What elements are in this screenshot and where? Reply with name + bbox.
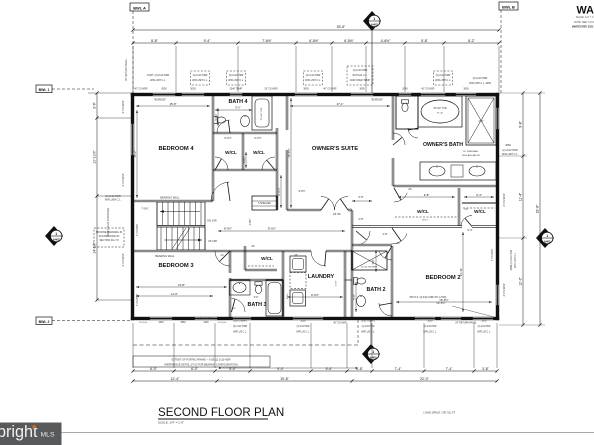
svg-text:W/CL: W/CL [417,209,429,214]
BWL B label box [499,2,518,10]
svg-text:(2) 2x10 HDR: (2) 2x10 HDR [353,69,368,72]
svg-text:(2) 2x10 HDR: (2) 2x10 HDR [473,77,488,80]
svg-text:W/CL: W/CL [261,256,273,261]
watermark bar [0,423,62,445]
bottom dim extension lines [132,323,134,368]
header note 3 [226,71,245,85]
svg-text:8'-8": 8'-8" [151,39,159,43]
svg-text:W/CL: W/CL [253,150,265,155]
svg-text:3'-8": 3'-8" [356,367,364,371]
svg-text:W/FLUSH C.L.: W/FLUSH C.L. [192,79,208,82]
wall wicl2 partition [462,202,496,204]
svg-text:BEARING WALL: BEARING WALL [160,196,180,200]
svg-text:W/FLUS C.L.: W/FLUS C.L. [361,332,375,334]
bath4 sink [241,116,250,127]
header note 2 [190,71,209,85]
window top bath4 [229,93,243,96]
wall between wicls [457,188,459,226]
svg-text:W/FLUSH C.L.: W/FLUSH C.L. [435,79,451,82]
svg-text:*EGRESS*: *EGRESS* [371,99,383,102]
window bottom bedroom2 c [472,317,494,320]
laundry sink base [290,290,306,306]
bath3 toilet [255,282,262,294]
svg-text:W/FLUSH C.L. 3056: W/FLUSH C.L. 3056 [469,82,491,85]
svg-text:3050 (TEMP): 3050 (TEMP) [361,321,375,323]
svg-text:7'-6½": 7'-6½" [262,39,272,43]
svg-text:W/CL: W/CL [474,209,486,214]
svg-text:2040 TEMP.: 2040 TEMP. [230,88,243,91]
svg-text:9'-4": 9'-4" [204,39,212,43]
top dimension extension lines [132,46,134,92]
dim bedroom2 w [396,301,492,303]
wicl d shelf [395,216,457,218]
owners bath tub [418,96,462,127]
svg-text:2'-8": 2'-8" [383,233,388,236]
portal frame dashed extent [133,344,358,346]
linen closet [252,196,277,210]
dim bedroom4 height [136,110,138,198]
svg-text:SCALE: 1/4" = 1'-0": SCALE: 1/4" = 1'-0" [576,16,594,19]
svg-text:4' CS-WSP: 4' CS-WSP [491,249,494,261]
right dimension column inner [522,93,524,325]
svg-text:W/FLUS C.L.: W/FLUS C.L. [233,332,247,334]
micro dim a [217,108,219,126]
svg-text:3050: 3050 [303,88,309,91]
svg-text:7'-1": 7'-1" [437,111,443,115]
window top owners suite b [350,93,374,96]
svg-text:ACCORDANCE W/: ACCORDANCE W/ [99,235,120,238]
svg-text:BEDROOM 2: BEDROOM 2 [425,275,460,281]
svg-text:DN 16R: DN 16R [207,219,216,223]
svg-text:BATH 2: BATH 2 [366,287,385,293]
closet b door [262,157,275,170]
svg-text:7'-0½": 7'-0½" [141,207,148,211]
bath2 shower [352,251,387,270]
staircase [157,202,205,250]
svg-text:9'-0½": 9'-0½" [224,136,231,140]
bath3 door [232,299,246,313]
svg-text:1: 1 [372,350,374,354]
svg-text:17'-1": 17'-1" [336,102,343,106]
svg-text:9'-0½": 9'-0½" [311,293,319,297]
svg-text:5'-4": 5'-4" [476,193,482,197]
svg-text:2'0 (1)-H: 2'0 (1)-H [139,322,148,324]
svg-text:6'-0": 6'-0" [191,367,199,371]
svg-text:W/FLUS C.L.: W/FLUS C.L. [296,332,310,334]
svg-text:10'-10½": 10'-10½" [93,150,97,164]
svg-text:W/FLUSH C.L.: W/FLUSH C.L. [502,153,519,156]
hall door to bath2 area [360,231,370,245]
svg-text:40" CS-WSP: 40" CS-WSP [333,323,347,325]
svg-text:BWL B: BWL B [502,4,515,9]
handrail note box [94,228,124,247]
svg-text:15'-2": 15'-2" [133,150,137,157]
svg-text:5'-0½": 5'-0½" [214,113,218,120]
top overall dimension 53'-8" [133,29,499,31]
BWL 2 dashed line [52,320,131,322]
svg-text:BWL 2: BWL 2 [39,320,50,324]
bath3 vanity [230,280,251,295]
svg-text:W/FLUSH C.L.: W/FLUSH C.L. [514,252,517,268]
svg-text:(REFERENCE DETAIL 3/7.03 FOR B: (REFERENCE DETAIL 3/7.03 FOR BEARING CON… [164,364,237,367]
window top owners bath toilet [398,93,412,96]
svg-text:4'-0": 4'-0" [478,119,483,123]
svg-text:CONT. (2) 2x10 HDR: CONT. (2) 2x10 HDR [147,74,170,77]
svg-text:2/6 HM.: 2/6 HM. [333,214,341,216]
svg-text:BATH 4: BATH 4 [228,99,247,105]
left dim extension lines [88,92,131,94]
svg-text:9'-0": 9'-0" [277,367,285,371]
svg-text:BEDROOM 4: BEDROOM 4 [158,146,194,152]
svg-text:6'-5½": 6'-5½" [309,39,319,43]
svg-text:9'-8": 9'-8" [519,120,523,128]
dim bedroom2 h [462,232,464,312]
svg-text:14'-6½": 14'-6½" [93,241,97,253]
wall closets south [213,168,277,170]
svg-text:16'-6½": 16'-6½" [436,301,445,305]
svg-text:3050: 3050 [190,88,196,91]
svg-text:2400: 2400 [158,322,164,324]
svg-text:BWL 1: BWL 1 [39,88,50,92]
svg-text:50K N.S. (3) #4(C) REF STL 1/7: 50K N.S. (3) #4(C) REF STL 1/7000 [410,297,447,299]
section marker bottom [362,344,380,364]
window right bedroom2 [496,284,499,306]
svg-text:MLS: MLS [41,432,55,439]
laundry dryer dashed [290,273,306,289]
svg-text:5'-8": 5'-8" [421,39,429,43]
BWL B dashed line [500,10,502,93]
dim bedroom3 width2 [136,286,227,288]
svg-text:A402: A402 [544,240,551,244]
svg-text:9'-0": 9'-0" [235,106,241,110]
micro dim c [222,367,354,369]
svg-text:3050: 3050 [300,321,306,323]
svg-text:2'-8": 2'-8" [359,218,364,221]
svg-text:5'-0½": 5'-0½" [254,136,261,140]
window bottom bath3 [232,317,252,320]
svg-text:#NOTES REV 2021 IRC: #NOTES REV 2021 IRC [572,25,594,28]
svg-text:W/FLUS C.L.: W/FLUS C.L. [423,332,437,334]
svg-text:40" CS-WSP: 40" CS-WSP [134,89,148,91]
svg-text:(2) 2x10 HDR: (2) 2x10 HDR [306,74,321,77]
wall chase [343,251,345,317]
svg-text:1: 1 [373,17,375,21]
svg-text:4'-6½": 4'-6½" [248,218,252,225]
svg-text:4' CS-WSP: 4' CS-WSP [502,193,506,206]
svg-text:BWL A: BWL A [133,5,146,10]
window top bedroom4 b [181,93,205,96]
section marker left [45,226,63,246]
svg-text:19" CS-WSP: 19" CS-WSP [264,89,278,91]
bottom dimension row 1 [133,370,497,372]
svg-text:4040 FIXED TEMP.: 4040 FIXED TEMP. [350,79,371,82]
svg-text:A402: A402 [53,238,60,242]
svg-text:3056: 3056 [505,144,511,147]
svg-text:40" CS-WSP: 40" CS-WSP [323,89,337,91]
wall bath4 south [213,131,277,133]
bath2 sink [357,296,366,307]
wicl d door [394,193,407,202]
wall bath3 north [230,278,283,280]
svg-text:4'-6½": 4'-6½" [242,156,246,163]
header note 4 [303,71,322,85]
svg-text:WAL: WAL [577,5,594,17]
svg-text:7'-4": 7'-4" [446,367,454,371]
exterior wall left [131,93,134,320]
svg-text:EXTENT OF PORTAL FRAME — USE (: EXTENT OF PORTAL FRAME — USE (2) 2x10 HD… [172,359,231,362]
wicl c closet [243,246,245,270]
svg-text:40"x34" SHOWER: 40"x34" SHOWER [361,267,378,269]
svg-text:(2) 2x10 HDR: (2) 2x10 HDR [502,149,517,152]
svg-text:bright: bright [0,423,38,441]
laundry washer [290,256,306,272]
wall bath2 east / bedroom2 west [390,246,392,317]
svg-text:(2) 2x6 HDR: (2) 2x6 HDR [297,326,310,328]
svg-text:15'-8": 15'-8" [169,102,176,106]
svg-text:LAUNDRY: LAUNDRY [308,274,335,280]
svg-text:4' CS-WSP: 4' CS-WSP [502,283,506,296]
svg-text:A402: A402 [370,356,377,360]
BWL A dashed line [132,11,134,93]
svg-text:OWNER'S BATH: OWNER'S BATH [423,142,463,148]
dim owners suite width [290,105,390,107]
svg-text:53'-8": 53'-8" [337,25,346,29]
svg-text:3050: 3050 [180,322,186,324]
svg-text:12'-2": 12'-2" [519,276,523,285]
svg-text:NOTE: SEE T-1 FOR WALL TYPES: NOTE: SEE T-1 FOR WALL TYPES [574,21,594,24]
bedroom2 door [392,234,407,245]
svg-text:5'-4": 5'-4" [468,229,473,232]
svg-text:6'-0½": 6'-0½" [277,188,281,196]
svg-text:LIVING SPACE: 1787 SQ. FT.: LIVING SPACE: 1787 SQ. FT. [424,412,456,415]
owners vanity [420,162,496,180]
wall between closets [241,133,243,170]
owners toilet room [396,96,418,129]
owners bath entry door [393,133,405,145]
svg-text:2'0 (1)-H: 2'0 (1)-H [218,322,227,324]
svg-text:W/FLUSH C.L.: W/FLUSH C.L. [228,79,244,82]
svg-text:11'-0": 11'-0" [171,292,178,296]
svg-text:32"x60" TUB: 32"x60" TUB [261,107,263,120]
wall bedroom3 east [228,251,230,273]
wall hall east [350,210,352,251]
svg-text:A402: A402 [371,23,378,27]
dim hall west [218,230,345,232]
svg-text:16'-6½": 16'-6½" [287,148,291,157]
dim wicl d [398,196,455,198]
BWL A label box [130,3,149,11]
svg-text:2400: 2400 [203,322,209,324]
svg-text:W/3.5x11 C.L.: W/3.5x11 C.L. [353,74,368,77]
bedroom3 door [215,251,230,266]
svg-text:5'-8": 5'-8" [359,196,364,199]
dim laundry [287,296,343,298]
closet a door [215,157,228,170]
wall owners suite west [285,96,287,130]
svg-text:1: 1 [55,232,57,236]
owners suite double door [321,197,335,211]
dim bath2 w [355,282,357,312]
svg-text:8'-2": 8'-2" [468,39,476,43]
svg-text:19'-8": 19'-8" [280,377,289,381]
svg-text:W/CL: W/CL [225,150,237,155]
dim bedroom4 width [136,105,210,107]
svg-text:16" RETURN PANEL: 16" RETURN PANEL [125,58,128,81]
svg-text:W/FLUSH C.L.: W/FLUSH C.L. [150,79,166,82]
svg-text:UP 16R: UP 16R [208,239,217,243]
portal frame note box [133,356,270,367]
svg-text:1: 1 [546,234,548,238]
exterior wall right [496,93,499,320]
svg-text:40" CS-WSP: 40" CS-WSP [421,89,435,91]
bearing wall upper [133,199,213,201]
BWL 1 label box [36,85,52,93]
right dim extension lines [499,92,545,94]
right dimension column outer [539,93,541,325]
dim bath4 [215,109,252,111]
wall owners bath south [393,184,496,186]
wall wicl south / bedroom2 north [352,225,462,227]
window bottom bedroom2 a [414,317,436,320]
wicl e door [461,216,472,227]
window bottom bedroom3 b [194,317,218,320]
svg-text:32'-8": 32'-8" [536,204,540,213]
window left bedroom4 [131,123,134,156]
bottom dimension row 2 [133,380,497,382]
svg-text:(2) 2x10 HDR: (2) 2x10 HDR [229,74,244,77]
left dimension column [96,93,98,300]
svg-text:2040: 2040 [402,88,408,91]
section marker right [536,228,554,248]
bath3 tub [266,280,283,316]
micro dim f [375,250,377,272]
svg-text:SECTION 311.7.8: SECTION 311.7.8 [99,239,119,242]
dim wicl e [464,196,494,198]
svg-text:12'-4": 12'-4" [171,377,180,381]
svg-text:60"x32" TUB: 60"x32" TUB [433,108,447,110]
svg-text:PROVIDE HANDRAIL IN: PROVIDE HANDRAIL IN [96,231,123,234]
window top owners bath tub [420,93,446,96]
svg-text:3050 (TEMP): 3050 (TEMP) [233,321,247,323]
svg-text:3050: 3050 [359,88,365,91]
svg-text:3050: 3050 [463,88,469,91]
svg-text:6'-5½": 6'-5½" [344,39,354,43]
svg-text:W/FLUS C.L.: W/FLUS C.L. [477,332,491,334]
micro dim b [245,152,247,168]
bath4 door [217,120,230,133]
svg-text:*EGRESS*: *EGRESS* [200,317,212,320]
svg-text:3'-6": 3'-6" [93,101,97,109]
dim bedroom3 width [136,295,213,297]
svg-text:24" RETURN PANEL: 24" RETURN PANEL [455,322,477,325]
bath4 tub [252,96,272,130]
svg-text:4' CS-WSP: 4' CS-WSP [136,224,139,236]
window top owners suite a [294,93,318,96]
wall owners suite south [287,208,321,210]
svg-text:5'-0": 5'-0" [352,294,356,300]
svg-text:3050: 3050 [481,321,487,323]
bath2 door [379,251,392,260]
svg-text:3050: 3050 [161,88,167,91]
svg-text:5 SHELVES: 5 SHELVES [258,202,271,205]
wall bath2 west / laundry east [281,251,283,317]
svg-text:W/FLUSH C.L.: W/FLUSH C.L. [105,199,122,202]
svg-text:5'-4": 5'-4" [326,367,334,371]
svg-text:4' CS-WSP: 4' CS-WSP [136,294,139,306]
svg-text:W/GLASS ABOVE: W/GLASS ABOVE [462,154,481,157]
top dimension row [133,42,499,44]
svg-text:BEDROOM 3: BEDROOM 3 [158,263,194,269]
svg-text:4'-6½": 4'-6½" [381,39,391,43]
bedroom4 door [211,182,229,201]
BWL 2 label box [36,317,52,325]
window top owners bath [455,93,477,96]
svg-text:SCALE: 1/4" = 1'-0": SCALE: 1/4" = 1'-0" [158,421,184,425]
wall bath2 north [352,243,392,245]
window top bedroom4 a [152,93,176,96]
svg-text:6'-0": 6'-0" [150,367,158,371]
svg-text:(2) 2x6 HDR: (2) 2x6 HDR [478,326,491,328]
wall bedroom4 east [211,96,213,201]
svg-text:13'-8": 13'-8" [178,283,185,287]
svg-text:46" KNEEWALL: 46" KNEEWALL [463,150,479,153]
svg-text:4' CS-WSP: 4' CS-WSP [121,253,125,266]
wall hall west [275,128,277,210]
laundry door [311,251,326,266]
svg-text:SECOND FLOOR PLAN: SECOND FLOOR PLAN [158,406,284,419]
svg-text:3'-8": 3'-8" [482,367,490,371]
bath2 toilet [354,277,366,284]
owners bath wc door [408,128,418,138]
svg-text:BATH 3: BATH 3 [247,302,266,308]
svg-text:BEARING WALL: BEARING WALL [155,254,175,258]
svg-text:(2) 2x6 HDR: (2) 2x6 HDR [424,326,437,328]
svg-text:8'-0½": 8'-0½" [268,227,276,231]
svg-text:7'-4": 7'-4" [395,367,403,371]
svg-text:3050: 3050 [427,321,433,323]
header note 6 [433,71,452,85]
svg-text:13'-11": 13'-11" [459,268,463,276]
svg-text:5'-4": 5'-4" [229,367,237,371]
svg-text:4' CS-WSP: 4' CS-WSP [121,173,125,186]
window bottom bedroom2 b [440,317,462,320]
svg-text:(2) 2x6 HDR: (2) 2x6 HDR [362,326,375,328]
wicl e shelf [463,207,495,209]
section marker top [363,11,381,31]
svg-text:(2) 2x10 HDR: (2) 2x10 HDR [193,74,208,77]
svg-text:22'-0": 22'-0" [420,377,429,381]
svg-text:4' CS-WSP: 4' CS-WSP [121,100,125,113]
svg-text:(2) 2x10 HDR: (2) 2x10 HDR [233,326,247,328]
svg-text:SH/CL: SH/CL [422,220,429,222]
svg-text:9'-0½": 9'-0½" [298,189,305,193]
svg-text:3056 (2) 2x10 HDR: 3056 (2) 2x10 HDR [510,249,513,270]
wall owners suite east [391,96,393,140]
svg-text:3'-6": 3'-6" [372,259,375,264]
bath4 toilet [214,116,226,123]
svg-text:*EGRESS*: *EGRESS* [154,99,166,102]
dim hall height [280,175,282,208]
owners shower [466,96,496,145]
wall hall south / laundry north [230,249,311,251]
header note 5 [347,66,373,85]
dim owners suite height [290,98,292,208]
window bottom laundry [292,317,324,320]
BWL 1 dashed line [52,88,94,90]
svg-text:(2) 2x10 HDR: (2) 2x10 HDR [436,74,451,77]
svg-text:9'-8": 9'-8" [424,193,430,197]
svg-text:W/FLUSH C.L.: W/FLUSH C.L. [305,79,321,82]
